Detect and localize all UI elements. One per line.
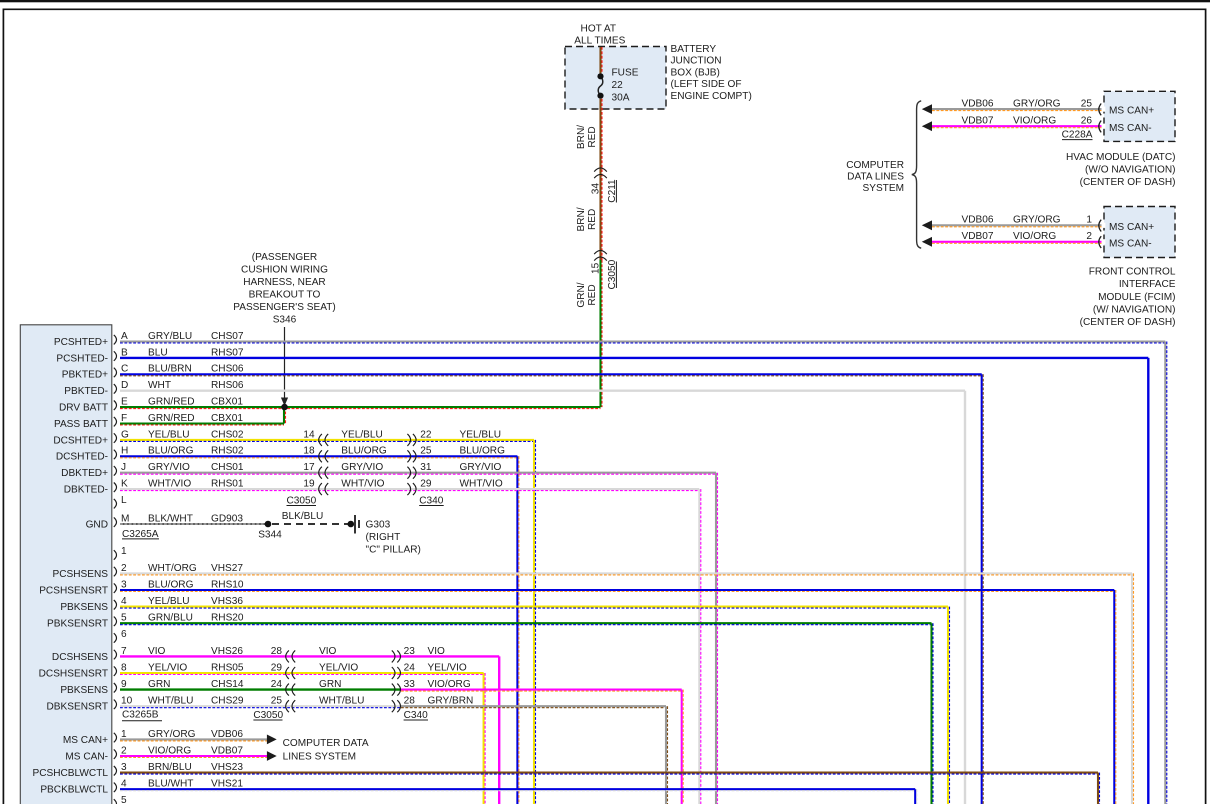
svg-text:RHS05: RHS05 [211,662,244,673]
svg-text:GRY/VIO: GRY/VIO [341,462,383,473]
svg-text:CHS14: CHS14 [211,679,244,690]
svg-text:MS CAN-: MS CAN- [1109,238,1152,249]
svg-text:3: 3 [121,579,127,590]
svg-text:2: 2 [1086,231,1092,242]
svg-text:BLK/BLU: BLK/BLU [282,511,324,522]
svg-text:VDB07: VDB07 [962,231,994,242]
svg-text:2: 2 [121,563,127,574]
svg-text:C3265A: C3265A [122,529,159,540]
svg-text:BLU/ORG: BLU/ORG [460,446,506,457]
svg-text:INTERFACE: INTERFACE [1119,279,1176,290]
svg-text:17: 17 [303,462,315,473]
svg-text:RHS07: RHS07 [211,347,244,358]
svg-text:(RIGHT: (RIGHT [366,532,401,543]
svg-text:GRN: GRN [148,679,170,690]
svg-text:CHS06: CHS06 [211,364,244,375]
svg-text:DCSHTED-: DCSHTED- [56,452,108,463]
svg-text:GRN/: GRN/ [576,282,587,307]
svg-text:M: M [121,513,129,524]
svg-text:VHS27: VHS27 [211,563,243,574]
svg-text:VDB07: VDB07 [211,745,243,756]
svg-text:CHS02: CHS02 [211,429,244,440]
svg-text:PBKTED-: PBKTED- [64,386,108,397]
svg-text:PCSHTED+: PCSHTED+ [54,337,108,348]
svg-text:MS CAN-: MS CAN- [1109,123,1152,134]
svg-text:ALL TIMES: ALL TIMES [574,36,625,47]
svg-text:C228A: C228A [1062,130,1093,141]
svg-text:D: D [121,380,128,391]
svg-text:31: 31 [420,462,432,473]
svg-text:C: C [121,364,128,375]
svg-text:25: 25 [420,446,432,457]
svg-text:28: 28 [271,646,283,657]
svg-text:23: 23 [404,646,416,657]
svg-text:26: 26 [1081,115,1093,126]
svg-text:G303: G303 [366,520,391,531]
svg-text:YEL/BLU: YEL/BLU [148,596,190,607]
svg-text:14: 14 [303,429,315,440]
svg-text:GRY/ORG: GRY/ORG [148,729,196,740]
svg-text:DRV BATT: DRV BATT [59,403,108,414]
svg-text:5: 5 [121,613,127,624]
svg-text:PBKSENS: PBKSENS [60,685,108,696]
svg-text:(CENTER OF DASH): (CENTER OF DASH) [1080,177,1176,188]
svg-text:VDB06: VDB06 [211,729,243,740]
svg-text:GRY/VIO: GRY/VIO [460,462,502,473]
svg-text:CHS29: CHS29 [211,696,244,707]
svg-text:24: 24 [271,679,283,690]
svg-text:CUSHION WIRING: CUSHION WIRING [241,265,328,276]
svg-text:PBKTED+: PBKTED+ [62,370,108,381]
svg-text:VIO/ORG: VIO/ORG [148,745,191,756]
svg-text:30A: 30A [612,93,630,104]
svg-text:DBKSENSRT: DBKSENSRT [46,702,108,713]
svg-text:VIO: VIO [428,646,446,657]
svg-text:1: 1 [121,729,127,740]
svg-text:CHS01: CHS01 [211,462,244,473]
svg-text:VHS36: VHS36 [211,596,243,607]
svg-text:8: 8 [121,662,127,673]
svg-text:24: 24 [404,662,416,673]
svg-text:HARNESS, NEAR: HARNESS, NEAR [243,277,325,288]
svg-text:C340: C340 [404,710,429,721]
svg-text:19: 19 [303,479,315,490]
svg-text:BRN/: BRN/ [576,207,587,231]
svg-text:DCSHSENS: DCSHSENS [52,652,108,663]
svg-text:BLU: BLU [148,347,168,358]
svg-text:F: F [121,413,127,424]
svg-text:YEL/BLU: YEL/BLU [460,429,502,440]
svg-text:PCSHTED-: PCSHTED- [56,353,108,364]
svg-text:A: A [121,331,128,342]
svg-text:PBCKBLWCTL: PBCKBLWCTL [40,785,108,796]
svg-text:18: 18 [303,446,315,457]
svg-text:RHS20: RHS20 [211,613,244,624]
svg-text:BLK/WHT: BLK/WHT [148,513,193,524]
svg-text:L: L [121,495,127,506]
svg-text:S344: S344 [258,529,282,540]
svg-text:(CENTER OF DASH): (CENTER OF DASH) [1080,317,1176,328]
svg-text:RHS06: RHS06 [211,380,244,391]
svg-text:GRN: GRN [319,679,341,690]
svg-text:RED: RED [587,126,598,147]
svg-text:BATTERY: BATTERY [671,44,717,55]
svg-text:PCSHSENS: PCSHSENS [52,569,108,580]
svg-text:6: 6 [121,629,127,640]
svg-text:C340: C340 [419,495,444,506]
svg-text:3: 3 [121,762,127,773]
svg-text:(LEFT SIDE OF: (LEFT SIDE OF [671,79,742,90]
svg-text:GRY/ORG: GRY/ORG [1013,215,1061,226]
svg-text:BRN/BLU: BRN/BLU [148,762,192,773]
svg-text:4: 4 [121,779,127,790]
svg-text:COMPUTER: COMPUTER [846,160,904,171]
svg-text:1: 1 [121,546,127,557]
svg-text:DCSHSENSRT: DCSHSENSRT [39,668,108,679]
svg-text:MS CAN-: MS CAN- [65,751,108,762]
svg-text:"C" PILLAR): "C" PILLAR) [366,544,421,555]
svg-text:DATA LINES: DATA LINES [847,172,904,183]
svg-text:C3050: C3050 [253,710,283,721]
svg-text:BLU/WHT: BLU/WHT [148,779,193,790]
svg-text:J: J [121,462,126,473]
svg-text:CHS07: CHS07 [211,331,244,342]
svg-text:(PASSENGER: (PASSENGER [252,252,317,263]
svg-text:GRN/RED: GRN/RED [148,397,195,408]
svg-text:VIO: VIO [148,646,166,657]
svg-text:GRY/BRN: GRY/BRN [428,696,474,707]
svg-text:GRN/RED: GRN/RED [148,413,195,424]
svg-text:K: K [121,479,128,490]
svg-text:GRY/ORG: GRY/ORG [1013,98,1061,109]
svg-text:WHT/ORG: WHT/ORG [148,563,197,574]
svg-text:ENGINE COMPT): ENGINE COMPT) [671,91,752,102]
svg-text:GRY/BLU: GRY/BLU [148,331,192,342]
svg-text:MS CAN+: MS CAN+ [63,735,108,746]
svg-text:VDB06: VDB06 [962,215,994,226]
svg-text:VIO: VIO [319,646,337,657]
svg-text:DBKTED+: DBKTED+ [61,468,108,479]
svg-text:YEL/BLU: YEL/BLU [341,429,383,440]
svg-text:CBX01: CBX01 [211,397,243,408]
svg-text:HVAC MODULE (DATC): HVAC MODULE (DATC) [1066,152,1176,163]
svg-text:BRN/: BRN/ [576,125,587,149]
svg-text:PBKSENSRT: PBKSENSRT [47,619,108,630]
svg-text:25: 25 [1081,98,1093,109]
svg-text:YEL/BLU: YEL/BLU [148,429,190,440]
svg-text:GRN/BLU: GRN/BLU [148,613,193,624]
svg-text:15: 15 [591,262,602,274]
svg-text:MS CAN+: MS CAN+ [1109,106,1154,117]
svg-text:B: B [121,347,128,358]
svg-text:BLU/ORG: BLU/ORG [341,446,387,457]
svg-text:10: 10 [121,696,133,707]
svg-text:1: 1 [1086,215,1092,226]
svg-text:PCSHSENSRT: PCSHSENSRT [39,585,108,596]
svg-text:RHS01: RHS01 [211,479,244,490]
svg-text:WHT/BLU: WHT/BLU [148,696,193,707]
svg-text:GRY/VIO: GRY/VIO [148,462,190,473]
svg-text:22: 22 [420,429,432,440]
svg-text:VHS23: VHS23 [211,762,243,773]
svg-text:BLU/ORG: BLU/ORG [148,446,194,457]
svg-text:CBX01: CBX01 [211,413,243,424]
svg-text:RHS10: RHS10 [211,579,244,590]
svg-text:PASSENGER'S SEAT): PASSENGER'S SEAT) [233,302,336,313]
svg-text:COMPUTER DATA: COMPUTER DATA [283,738,369,749]
svg-text:VIO/ORG: VIO/ORG [428,679,471,690]
svg-text:VIO/ORG: VIO/ORG [1013,115,1056,126]
svg-text:VDB06: VDB06 [962,98,994,109]
svg-text:4: 4 [121,596,127,607]
svg-text:WHT/BLU: WHT/BLU [319,696,364,707]
svg-text:25: 25 [271,696,283,707]
svg-text:E: E [121,397,128,408]
svg-text:9: 9 [121,679,127,690]
svg-text:BLU/ORG: BLU/ORG [148,579,194,590]
svg-text:LINES SYSTEM: LINES SYSTEM [283,752,356,763]
svg-text:33: 33 [404,679,416,690]
svg-text:22: 22 [612,80,624,91]
svg-text:PASS BATT: PASS BATT [54,419,108,430]
svg-text:C3265B: C3265B [122,710,159,721]
svg-text:7: 7 [121,646,127,657]
svg-text:JUNCTION: JUNCTION [671,56,722,67]
svg-text:DCSHTED+: DCSHTED+ [53,435,108,446]
svg-text:WHT/VIO: WHT/VIO [148,479,191,490]
svg-text:VHS21: VHS21 [211,779,243,790]
svg-text:29: 29 [271,662,283,673]
svg-text:2: 2 [121,745,127,756]
svg-text:MODULE (FCIM): MODULE (FCIM) [1098,292,1175,303]
svg-text:28: 28 [404,696,416,707]
svg-text:DBKTED-: DBKTED- [64,485,108,496]
svg-text:RED: RED [587,284,598,305]
svg-text:WHT/VIO: WHT/VIO [341,479,384,490]
svg-text:VHS26: VHS26 [211,646,243,657]
svg-text:H: H [121,446,128,457]
svg-text:S346: S346 [273,315,297,326]
svg-text:SYSTEM: SYSTEM [862,183,904,194]
svg-text:YEL/VIO: YEL/VIO [319,662,358,673]
svg-text:YEL/VIO: YEL/VIO [428,662,467,673]
svg-text:RED: RED [587,209,598,230]
svg-text:BLU/BRN: BLU/BRN [148,364,192,375]
svg-text:(W/O NAVIGATION): (W/O NAVIGATION) [1085,165,1175,176]
svg-text:VIO/ORG: VIO/ORG [1013,231,1056,242]
svg-text:GD903: GD903 [211,513,243,524]
svg-text:PCSHCBLWCTL: PCSHCBLWCTL [32,768,108,779]
svg-text:(W/ NAVIGATION): (W/ NAVIGATION) [1093,305,1176,316]
svg-text:29: 29 [420,479,432,490]
svg-text:G: G [121,429,129,440]
svg-text:FRONT CONTROL: FRONT CONTROL [1089,266,1176,277]
svg-text:YEL/VIO: YEL/VIO [148,662,187,673]
svg-text:BOX (BJB): BOX (BJB) [671,67,720,78]
svg-text:RHS02: RHS02 [211,446,244,457]
svg-text:BREAKOUT TO: BREAKOUT TO [249,290,321,301]
svg-text:5: 5 [121,795,127,804]
svg-text:WHT/VIO: WHT/VIO [460,479,503,490]
svg-text:C3050: C3050 [287,495,317,506]
svg-text:MS CAN+: MS CAN+ [1109,222,1154,233]
svg-text:HOT AT: HOT AT [581,24,617,35]
svg-text:34: 34 [591,183,602,195]
svg-text:FUSE: FUSE [612,68,639,79]
svg-text:PBKSENS: PBKSENS [60,602,108,613]
svg-text:VDB07: VDB07 [962,115,994,126]
svg-text:WHT: WHT [148,380,171,391]
svg-text:GND: GND [86,519,108,530]
